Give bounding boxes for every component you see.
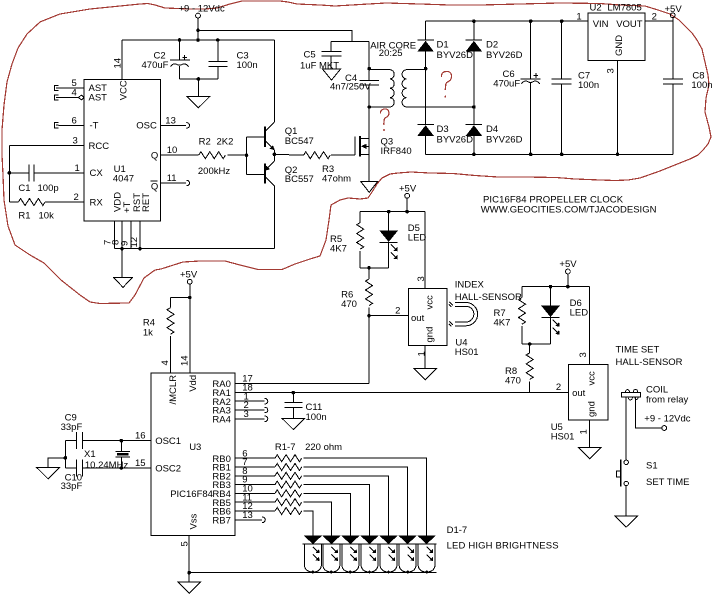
svg-text:3: 3 (73, 136, 78, 147)
resistor R2of7 pin 7 RB1 (235, 457, 407, 535)
wire U1 bottom bus (115, 248, 275, 250)
svg-text:HALL-SENSOR: HALL-SENSOR (616, 357, 683, 368)
wire emitter to R3 (274, 153, 303, 156)
resistor R1 (9, 192, 84, 222)
svg-text:gnd: gnd (587, 401, 598, 417)
pin 3 RCC wire (9, 136, 84, 147)
resistor R6 (341, 268, 372, 316)
svg-text:1: 1 (417, 351, 428, 356)
svg-text:-T: -T (90, 121, 99, 132)
node +9-12Vdc supply terminal (179, 4, 225, 19)
svg-text:OSC1: OSC1 (155, 436, 181, 447)
svg-text:LM7805: LM7805 (607, 3, 641, 14)
wire LED cathode drops (304, 544, 435, 573)
svg-text:13: 13 (242, 510, 253, 521)
pin 10 Q wire (160, 145, 198, 156)
svg-text:10k: 10k (39, 211, 55, 222)
svg-text:470: 470 (341, 299, 357, 310)
capacitor C11 (284, 391, 326, 423)
wire rail y40 (122, 39, 275, 41)
wire bottom ground bus (189, 572, 437, 574)
capacitor C8 (663, 21, 713, 154)
pin 15 OSC2 wire (82, 458, 151, 469)
svg-text:12: 12 (129, 237, 140, 248)
red question mark 1 (441, 71, 451, 97)
wire U4 vcc pin 3 (416, 212, 427, 289)
capacitor C3 (208, 40, 257, 79)
resistor R6of7 pin 11 RB5 (235, 492, 331, 535)
capacitor C4 (330, 69, 379, 107)
svg-text:R1: R1 (18, 211, 30, 222)
svg-text:2: 2 (556, 382, 561, 393)
svg-text:out: out (411, 313, 425, 324)
svg-text:BC557: BC557 (285, 174, 314, 185)
wire coil to S1 (625, 397, 627, 460)
svg-text:RB7: RB7 (212, 515, 230, 526)
wire coil to +9-12Vdc (635, 397, 662, 428)
svg-text:RA4: RA4 (212, 414, 230, 425)
svg-text:220 ohm: 220 ohm (305, 442, 342, 453)
svg-text:3: 3 (606, 68, 617, 73)
transistor Q3 IRF840 (355, 136, 412, 157)
capacitor C7 (552, 19, 599, 156)
ground under U4 (414, 369, 437, 380)
node bridge junctions (424, 67, 428, 71)
node +5V terminal PIC (180, 269, 198, 297)
ground under S1 (615, 516, 638, 527)
pin 16 OSC1 wire (82, 431, 151, 442)
svg-text:INDEX: INDEX (455, 279, 485, 290)
wire U4 gnd pin 1 (417, 346, 428, 369)
svg-text:10.24MHz: 10.24MHz (85, 460, 129, 471)
svg-text:OSC2: OSC2 (155, 464, 181, 475)
resistor R3of7 pin 8 RB2 (235, 466, 388, 536)
resistor R7of7 pin 12 RB6 (235, 501, 313, 535)
resistor R8 (505, 344, 533, 393)
svg-text:100n: 100n (691, 80, 712, 91)
red question mark 2 (380, 109, 388, 131)
svg-text:from relay: from relay (646, 394, 688, 405)
transformer T1 air core primary (367, 67, 394, 109)
svg-text:470: 470 (505, 375, 521, 386)
svg-text:VIN: VIN (593, 19, 609, 30)
node +5V terminal index sensor (399, 183, 417, 211)
wire U4 out to RA0 (368, 316, 370, 384)
svg-text:6: 6 (72, 115, 77, 126)
junction dots on rails (196, 29, 200, 33)
wire Q3 source to ground (368, 154, 370, 181)
svg-text:1: 1 (75, 163, 80, 174)
wire rail y41.5 (331, 42, 369, 69)
svg-text:4: 4 (160, 360, 171, 365)
svg-text:RCC: RCC (89, 141, 110, 152)
pin 1 RA2 stub (235, 391, 268, 404)
svg-text:WWW.GEOCITIES.COM/TJACODESIGN: WWW.GEOCITIES.COM/TJACODESIGN (481, 204, 657, 215)
pin 13 OSC stub (160, 115, 189, 128)
svg-text:47ohm: 47ohm (322, 174, 351, 185)
svg-text:Vss: Vss (188, 513, 199, 529)
svg-text:5: 5 (180, 541, 191, 546)
pin 17 RA0 stub (235, 374, 369, 385)
ground under Q3 (361, 182, 378, 193)
svg-text:BYV26D: BYV26D (437, 50, 474, 61)
svg-text:LED: LED (408, 233, 427, 244)
svg-text:HS01: HS01 (551, 432, 575, 443)
node R1-7 label (275, 442, 342, 453)
resistor R2 (198, 137, 247, 178)
op-amp U1 4047 body (84, 79, 160, 221)
svg-text:+9 - 12Vdc: +9 - 12Vdc (644, 413, 690, 424)
pin 4 AST stub with diamond (54, 88, 84, 101)
svg-text:16: 16 (135, 431, 146, 442)
pin 5 AST stub (54, 78, 84, 91)
svg-text:100n: 100n (306, 412, 327, 423)
svg-text:TIME SET: TIME SET (616, 344, 660, 355)
wire C2-C3 bottom (180, 79, 218, 97)
svg-text:HALL-SENSOR: HALL-SENSOR (455, 292, 522, 303)
pin 6 -T stub (54, 115, 84, 128)
svg-text:11: 11 (167, 173, 177, 184)
wire to OSC ground (48, 458, 65, 468)
svg-text:BYV26D: BYV26D (486, 50, 523, 61)
ground under C2/C3 (187, 97, 210, 108)
op-amp U3 PIC16F84 body (151, 373, 235, 536)
capacitor C9 (61, 413, 83, 450)
node D1-7 label (447, 525, 559, 551)
pin 14 VCC wire (113, 40, 124, 79)
capacitor C2 (142, 40, 190, 79)
svg-text:1k: 1k (143, 328, 153, 339)
wire +5V split (171, 297, 190, 299)
svg-text:14: 14 (113, 58, 124, 69)
svg-text:IRF840: IRF840 (381, 146, 412, 157)
wire R5/D5 bottom (360, 267, 389, 269)
svg-text:4047: 4047 (113, 174, 134, 185)
svg-text:BYV26D: BYV26D (437, 135, 474, 146)
svg-text:D4: D4 (486, 124, 498, 135)
pin 5 Vss wire (180, 535, 192, 574)
node time set hall sensor label (616, 344, 683, 367)
capacitor C1 (9, 163, 84, 194)
node +5V output terminal (665, 4, 683, 21)
ground bottom left (178, 582, 201, 593)
node +9-12Vdc relay terminal (644, 413, 690, 430)
wire U2 GND pin 3 (606, 61, 620, 157)
crystal X1 (84, 439, 130, 471)
svg-text:2: 2 (395, 306, 400, 317)
svg-text:X1: X1 (84, 449, 96, 460)
svg-text:+5V: +5V (180, 269, 198, 280)
node COIL connector (621, 385, 688, 406)
svg-text:out: out (572, 388, 586, 399)
ground under C11 (282, 418, 305, 429)
svg-text:3: 3 (416, 276, 427, 281)
capacitor C5 (300, 42, 342, 72)
transistor Q1 BC547 (247, 122, 314, 154)
wire U4 out (367, 306, 409, 318)
svg-text:1: 1 (579, 429, 590, 434)
svg-text:2: 2 (74, 192, 79, 203)
svg-text:VCC: VCC (119, 80, 130, 100)
svg-text:14: 14 (179, 355, 190, 366)
svg-text:1uF MKT: 1uF MKT (300, 61, 339, 72)
diode D4 BYV26D (466, 124, 523, 155)
switch S1 (616, 460, 689, 488)
wire Vss to ground (188, 573, 190, 582)
svg-text:20:25: 20:25 (379, 48, 403, 59)
red annotation loop (2, 1, 711, 304)
svg-text:33pF: 33pF (61, 481, 83, 492)
node horseshoe magnet symbol (449, 302, 478, 326)
svg-text:100n: 100n (578, 80, 599, 91)
svg-text:HS01: HS01 (455, 347, 479, 358)
svg-text:BYV26D: BYV26D (486, 135, 523, 146)
svg-text:Q: Q (151, 181, 158, 192)
wire bus to ground (121, 249, 123, 278)
svg-text:gnd: gnd (425, 327, 436, 343)
ground under U1 (114, 277, 133, 287)
svg-text:15: 15 (135, 458, 146, 469)
wire rectifier bottom rail (426, 153, 673, 155)
svg-text:200kHz: 200kHz (198, 166, 230, 177)
wire index top rail (360, 211, 425, 213)
svg-text:3: 3 (244, 409, 249, 420)
node LED emission arrows (313, 547, 433, 561)
ground OSC (37, 468, 60, 479)
wire U5 gnd pin 1 (579, 420, 590, 448)
op-amp U4 HS01 hall sensor (409, 288, 479, 358)
U1 bottom pins 7 8 9 12 (103, 221, 141, 249)
svg-text:D2: D2 (486, 39, 498, 50)
pin 3 RA4 stub (235, 409, 268, 422)
svg-text:4K7: 4K7 (330, 243, 347, 254)
svg-text:+5V: +5V (559, 259, 577, 270)
svg-text:RET: RET (141, 193, 152, 212)
resistor R3 (304, 152, 356, 185)
node +5V terminal time sensor (559, 259, 577, 286)
svg-text:OSC: OSC (136, 121, 157, 132)
svg-text:LED: LED (570, 308, 589, 319)
svg-text:BC547: BC547 (285, 136, 314, 147)
wire rail y30 to transformer (198, 30, 352, 41)
svg-text:D1: D1 (437, 39, 449, 50)
pin 13 RB7 stub (235, 510, 265, 523)
svg-text:vcc: vcc (425, 295, 436, 310)
wire U5 vcc pin 3 (578, 287, 590, 365)
resistor R1of7 pin 6 RB0 (235, 448, 426, 535)
svg-text:100n: 100n (237, 60, 258, 71)
svg-text:AST: AST (89, 93, 108, 104)
capacitor C10 (61, 460, 83, 493)
svg-text:R2: R2 (199, 137, 211, 148)
svg-text:+5V: +5V (399, 183, 417, 194)
resistor R7 (494, 287, 526, 344)
svg-text:/MCLR: /MCLR (168, 375, 179, 405)
svg-text:SET TIME: SET TIME (646, 477, 689, 488)
node emitter junction (273, 153, 277, 157)
diode D3 BYV26D (417, 124, 473, 155)
pin 2 RA3 stub (235, 400, 268, 413)
wire supply vertical (197, 18, 199, 40)
wire Q1 collector to rail (274, 40, 276, 122)
diode D2 BYV26D (466, 21, 523, 124)
node index hall sensor label (455, 279, 522, 302)
svg-text:470uF: 470uF (493, 78, 520, 89)
svg-text:2K2: 2K2 (217, 137, 234, 148)
svg-text:CX: CX (90, 168, 104, 179)
svg-text:13: 13 (165, 115, 176, 126)
svg-text:RX: RX (90, 197, 104, 208)
wire rectifier top rail (426, 20, 588, 22)
svg-text:10: 10 (167, 145, 178, 156)
svg-text:D3: D3 (437, 124, 449, 135)
transistor Q2 BC557 (247, 154, 314, 248)
svg-text:C1: C1 (18, 183, 30, 194)
ground under U5 (578, 448, 601, 459)
node title text (481, 194, 657, 215)
svg-text:3: 3 (578, 352, 589, 357)
capacitor C6 (493, 19, 541, 156)
op-amp U2 LM7805 regulator (576, 3, 656, 61)
wire OSC loop (64, 441, 66, 468)
ground under C5 (323, 69, 341, 80)
resistor R4of7 pin 9 RB3 (235, 475, 369, 536)
node 200kHz base junction (245, 153, 249, 157)
wire time top rail (522, 286, 590, 288)
svg-text:4K7: 4K7 (494, 317, 511, 328)
svg-text:S1: S1 (646, 461, 658, 472)
wire U2 VOUT (645, 20, 673, 22)
transformer T1 secondary (370, 40, 474, 107)
svg-text:100p: 100p (38, 183, 59, 194)
svg-text:VOUT: VOUT (616, 19, 643, 30)
svg-text:LED HIGH BRIGHTNESS: LED HIGH BRIGHTNESS (447, 540, 559, 551)
svg-text:4n7/250V: 4n7/250V (330, 82, 371, 93)
resistor R4 (143, 298, 174, 373)
svg-text:U2: U2 (590, 3, 602, 14)
wire left loop RCC-RX (8, 146, 10, 203)
svg-text:vcc: vcc (587, 371, 598, 386)
resistor R5 (330, 212, 364, 268)
diode LED row D1-7 (303, 536, 437, 545)
diode D5 LED (379, 212, 426, 268)
wire R7/D6 bottom (522, 343, 551, 345)
svg-text:C5: C5 (304, 50, 316, 61)
svg-text:GND: GND (614, 35, 625, 56)
resistor R5of7 pin 10 RB4 (235, 484, 350, 536)
svg-text:U3: U3 (189, 442, 201, 453)
svg-text:4: 4 (72, 88, 77, 99)
svg-text:D1-7: D1-7 (447, 525, 468, 536)
svg-text:PIC16F84: PIC16F84 (170, 489, 213, 500)
svg-text:Q: Q (151, 150, 158, 161)
svg-text:33pF: 33pF (61, 422, 83, 433)
svg-text:R1-7: R1-7 (275, 442, 296, 453)
pin 11 Qbar stub (160, 173, 189, 186)
svg-text:+9 - 12Vdc: +9 - 12Vdc (179, 4, 225, 15)
svg-text:1: 1 (576, 12, 581, 23)
svg-text:470uF: 470uF (142, 60, 169, 71)
diode D6 LED (541, 287, 588, 344)
wire Vdd pin 14 (160, 298, 191, 373)
pin 18 RA1 wire (235, 383, 568, 394)
op-amp U5 HS01 hall sensor (551, 364, 608, 442)
diode D1 BYV26D (417, 21, 473, 124)
wire S1 to ground (625, 486, 627, 516)
svg-text:Vdd: Vdd (188, 375, 199, 392)
wire Q3 drain (368, 107, 370, 139)
